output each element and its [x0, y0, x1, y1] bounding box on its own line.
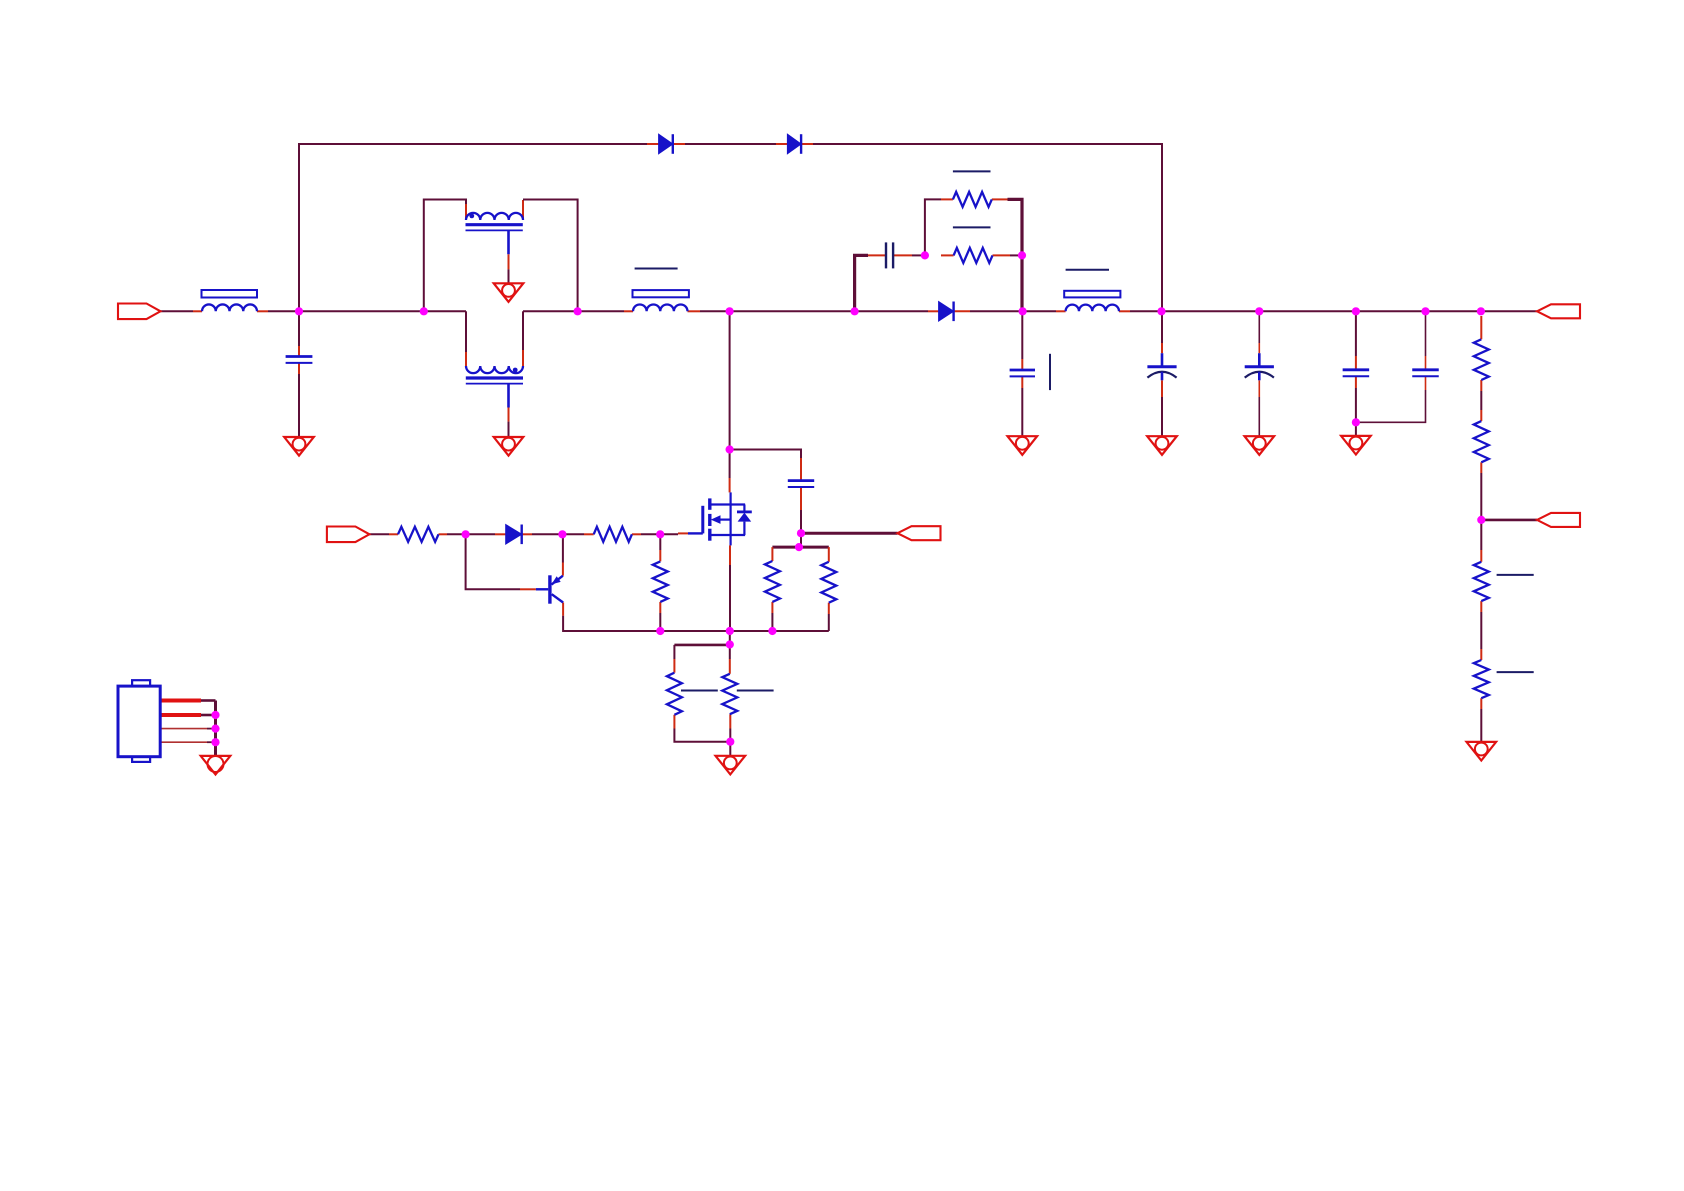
wire C4 to snubber node D	[912, 254, 925, 256]
wire R5 to node F	[1480, 473, 1482, 520]
wire lower winding right leg	[522, 311, 524, 350]
junction Q1 drain tap	[726, 307, 734, 315]
junction drain corner	[726, 445, 734, 453]
resistor R14 pin wires	[729, 659, 732, 729]
diode D2	[787, 134, 801, 154]
wire lower bus to node L	[729, 631, 731, 645]
diode D1 pin wires	[647, 143, 685, 145]
pin upper winding left	[465, 204, 467, 220]
wire R4 to R5	[1480, 391, 1482, 410]
diode D3 pin wires	[928, 310, 970, 312]
resistor R13	[667, 673, 682, 715]
junction node F	[1477, 516, 1485, 524]
wire node B to L2	[578, 310, 624, 312]
wire node A to lower winding	[424, 310, 466, 312]
wire C8 upper	[1355, 311, 1357, 356]
wire node G to D4	[466, 533, 495, 535]
junction C7 tap	[1255, 307, 1263, 315]
wire C9 upper	[1425, 311, 1427, 356]
wire node H to Q2 collector	[562, 534, 564, 562]
pin lower centre tap	[508, 408, 510, 422]
wire lower winding left leg	[465, 311, 467, 352]
wire C10 to node J	[800, 510, 802, 533]
capacitor C6	[1147, 353, 1176, 380]
resistor R3	[954, 248, 993, 263]
wire node L to R14	[729, 645, 731, 660]
capacitor C7 pin wires	[1258, 343, 1260, 397]
junction divider top	[1477, 307, 1485, 315]
junction snubber node E	[1018, 251, 1026, 259]
connector J1 pin 3	[160, 728, 207, 730]
wire R10 to lower bus	[659, 613, 661, 631]
pin upper centre tap	[508, 254, 510, 269]
wire gate input port	[369, 533, 389, 535]
wire R13 bottom	[674, 729, 730, 742]
connector J1 body	[118, 686, 160, 757]
wire Q1 source to lower bus	[729, 565, 731, 631]
wire node F to output port	[1481, 519, 1537, 522]
T1 lower core	[466, 378, 523, 384]
connector J1 pin 4	[160, 741, 207, 743]
wire snubber upper branch	[925, 199, 941, 255]
resistor R9	[594, 527, 632, 542]
junction C8 tap	[1352, 307, 1360, 315]
wire node G to Q2 base	[466, 534, 520, 589]
pin Q1 drain	[729, 478, 731, 492]
diode D2 pin wires	[776, 143, 813, 145]
pin Q2 collector	[562, 563, 564, 576]
inductor L3 value label	[1066, 269, 1109, 271]
common-mode choke T1 lower winding	[466, 366, 523, 373]
wire lower winding centre tap	[507, 384, 510, 408]
wire C9 lower to C8 node	[1356, 390, 1426, 422]
ground G2	[494, 283, 524, 302]
junction node K	[795, 543, 803, 551]
wire L1 to choke node A	[268, 310, 424, 312]
capacitor C9 pin wires	[1425, 356, 1427, 390]
wire D3 to node C	[970, 310, 1023, 312]
junction bus R11	[768, 627, 776, 635]
wire top bus middle segment	[685, 143, 776, 145]
wire C7 upper	[1258, 311, 1260, 343]
wire node L rail	[674, 644, 729, 647]
inductor L3 pin wires	[1056, 310, 1130, 312]
wire lower tap to ground	[508, 422, 510, 437]
wire upper tap to ground	[508, 269, 510, 283]
ground G4	[201, 756, 231, 775]
junction bus R10	[656, 627, 664, 635]
T1 upper core	[466, 225, 523, 231]
wire pin4 to ground rail	[207, 741, 216, 743]
T1 lower winding polarity dot	[513, 368, 518, 373]
common-mode choke T1 upper winding	[466, 213, 523, 220]
junction node I	[656, 530, 664, 538]
junction node M	[726, 738, 734, 746]
wire input to L1	[161, 310, 194, 312]
wire node F down	[1480, 520, 1482, 550]
wire R14 to node M	[729, 729, 731, 742]
pin upper winding right	[522, 200, 524, 220]
wire C1 lower	[298, 374, 300, 437]
junction snubber left	[851, 307, 859, 315]
wire node E to main line	[1020, 255, 1023, 311]
ground G10	[716, 756, 746, 775]
resistor R14 value label	[737, 690, 774, 692]
diode D3	[939, 302, 954, 322]
wire choke upper loop right	[523, 200, 578, 312]
wire pin2 to ground rail	[201, 714, 216, 717]
connector J1 bottom tab	[132, 757, 150, 762]
junction connector pin3	[211, 725, 219, 733]
wire node L rail left leg	[673, 645, 675, 659]
pin Q1 gate	[678, 532, 688, 534]
resistor R4 pin wires	[1480, 316, 1482, 391]
junction C8 C9 bottom	[1352, 418, 1360, 426]
transistor Q1 (MOSFET)	[688, 492, 745, 545]
output port OUT2	[1537, 513, 1580, 527]
wire node C to L3	[1023, 310, 1056, 312]
capacitor C5	[1010, 370, 1035, 376]
output port OUT1	[1537, 304, 1580, 318]
wire C5 upper	[1021, 311, 1023, 359]
junction node L	[726, 640, 734, 648]
resistor R3 value label	[953, 226, 991, 228]
wire node M to ground	[729, 742, 731, 756]
ground G3	[494, 437, 524, 456]
resistor R4	[1474, 339, 1489, 380]
inductor L1 shield	[202, 290, 258, 298]
wire L2 to snubber node	[700, 310, 855, 312]
resistor R12 pin wires	[828, 547, 830, 614]
wire R7 to ground	[1480, 709, 1482, 742]
wire R11 to lower bus	[771, 613, 773, 631]
resistor R8 pin wires	[389, 533, 447, 535]
wire top bus left segment	[299, 144, 647, 311]
ground G6	[1147, 436, 1177, 455]
wire pin3 to ground rail	[207, 728, 216, 730]
wire snubber right riser	[1008, 199, 1023, 255]
pin Q2 emitter	[562, 603, 564, 616]
junction C6 tap	[1157, 307, 1165, 315]
connector J1 pin 1	[160, 699, 201, 703]
wire C6 upper	[1161, 311, 1163, 343]
resistor R5	[1474, 421, 1489, 462]
wire C6 lower	[1161, 397, 1163, 436]
inductor L1	[202, 304, 257, 311]
ground G1	[284, 437, 314, 456]
ground G7	[1245, 436, 1275, 455]
resistor R2 value label	[953, 170, 991, 172]
resistor R2 pin wires	[941, 198, 1008, 200]
wire C8 lower	[1355, 388, 1357, 422]
capacitor C1 pin wires	[298, 346, 300, 374]
wire node I down	[659, 534, 661, 550]
pin lower winding right	[522, 350, 524, 366]
resistor R7 value label	[1497, 671, 1534, 673]
ground G8	[1341, 436, 1371, 455]
wire R3 to node E	[1010, 254, 1022, 256]
wire R6 to R7	[1480, 612, 1482, 649]
resistor R5 pin wires	[1480, 410, 1482, 473]
wire lower winding to node B	[523, 310, 578, 312]
capacitor C1	[286, 357, 313, 363]
wire snubber riser left	[855, 255, 868, 311]
wire top bus right segment	[813, 144, 1162, 311]
wire C7 lower	[1258, 397, 1260, 436]
pin lower winding left	[465, 352, 467, 366]
ground G5	[1008, 436, 1038, 455]
capacitor C9	[1412, 370, 1439, 376]
capacitor C8	[1343, 370, 1370, 376]
wire node I to Q1 gate	[660, 533, 678, 535]
resistor R11	[765, 561, 780, 602]
capacitor C8 pin wires	[1355, 356, 1357, 388]
connector J1 pin 2	[160, 713, 201, 717]
junction C9 tap	[1421, 307, 1429, 315]
wire choke upper loop left	[424, 200, 466, 312]
diode D1	[659, 134, 673, 154]
transistor Q2	[536, 575, 563, 603]
junction node A	[295, 307, 303, 315]
wire drain node to C10	[730, 450, 801, 459]
junction connector pin4	[211, 738, 219, 746]
connector J1 top tab	[132, 680, 150, 686]
pin Q1 source	[729, 545, 731, 565]
resistor R13 value label	[681, 690, 718, 692]
capacitor C5 pin wires	[1021, 359, 1023, 388]
wire Q1 drain upper	[729, 450, 731, 479]
inductor L2 value label	[635, 268, 678, 270]
resistor R6	[1474, 562, 1489, 601]
junction bus Q1 source	[726, 627, 734, 635]
Q1 body diode	[737, 505, 752, 536]
junction choke left	[420, 307, 428, 315]
wire main line to Q1 drain node	[729, 311, 731, 449]
junction node H	[558, 530, 566, 538]
capacitor C5 value label	[1049, 354, 1051, 390]
wire R8 to node G	[447, 533, 466, 535]
wire R12 to lower bus	[828, 614, 830, 631]
junction node G	[462, 530, 470, 538]
inductor L3 shield	[1064, 291, 1120, 298]
inductor L3	[1066, 305, 1119, 312]
resistor R10	[653, 561, 668, 602]
resistor R2	[953, 192, 992, 207]
resistor R10 pin wires	[659, 550, 661, 613]
output port OUT3	[898, 526, 941, 540]
resistor R13 pin wires	[673, 659, 675, 729]
resistor R8	[398, 527, 439, 542]
capacitor C10 pin wires	[800, 458, 802, 510]
inductor L2 shield	[633, 290, 689, 297]
inductor L1 pin wires	[193, 310, 268, 312]
capacitor C4 pin wires	[868, 254, 912, 256]
wire Q2 emitter to lower bus	[563, 616, 829, 631]
junction choke right	[574, 307, 582, 315]
wire node J to node K	[800, 533, 802, 547]
input port IN2	[327, 527, 370, 543]
pin Q2 base	[520, 588, 536, 590]
wire node K rail	[772, 546, 828, 549]
capacitor C4	[886, 242, 893, 268]
capacitor C10	[788, 481, 814, 487]
wire C1 upper	[298, 311, 300, 346]
resistor R3 pin wires	[941, 254, 1010, 256]
resistor R6 pin wires	[1480, 550, 1482, 612]
resistor R12	[821, 562, 836, 603]
wire connector ground rail	[214, 701, 217, 756]
resistor R7 pin wires	[1480, 649, 1482, 709]
inductor L2 pin wires	[624, 310, 700, 312]
resistor R7	[1474, 660, 1489, 698]
wire C8 node to ground	[1355, 422, 1357, 436]
wire R9 to node I	[641, 533, 660, 535]
resistor R6 value label	[1497, 574, 1534, 576]
wire C5 lower	[1021, 388, 1023, 436]
junction node J	[797, 529, 805, 537]
capacitor C6 pin wires	[1161, 343, 1163, 397]
resistor R9 pin wires	[584, 533, 641, 535]
diode D4 pin wires	[495, 533, 532, 535]
wire node H to R9	[562, 533, 584, 535]
input port IN1	[118, 304, 161, 320]
resistor R11 pin wires	[771, 547, 773, 613]
junction node C	[1019, 307, 1027, 315]
T1 upper winding polarity dot	[469, 214, 474, 219]
resistor R14	[722, 674, 737, 714]
capacitor C7	[1245, 353, 1274, 380]
wire D4 to node H	[532, 533, 562, 535]
wire node J to middle port	[801, 532, 898, 535]
diode D4	[506, 525, 522, 545]
ground G9	[1467, 742, 1497, 761]
wire snubber node to diode D3	[855, 310, 928, 312]
wire output rail	[1130, 310, 1537, 312]
wire upper winding centre tap	[507, 230, 510, 254]
junction snubber node D	[921, 251, 929, 259]
inductor L2	[633, 304, 688, 311]
junction connector pin2	[211, 711, 219, 719]
wire pin1 to ground rail	[201, 699, 216, 702]
